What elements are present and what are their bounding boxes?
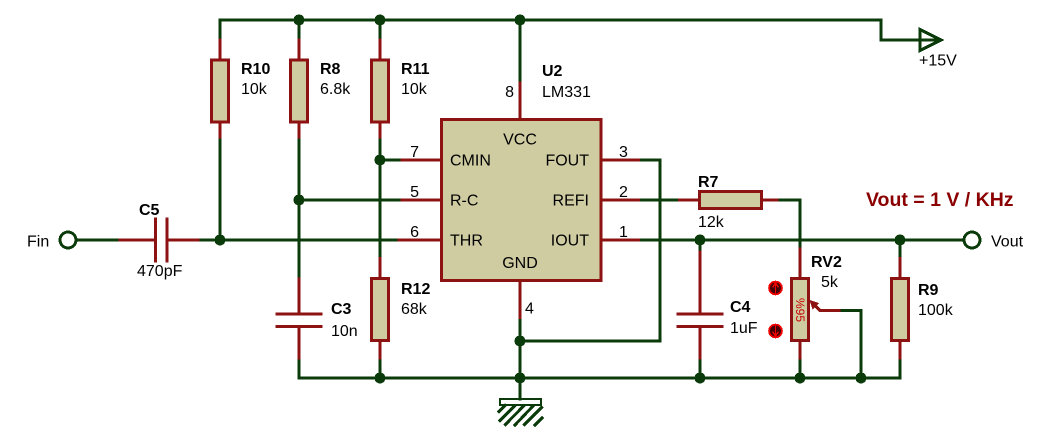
svg-text:6.8k: 6.8k bbox=[320, 81, 351, 98]
node junction dots bbox=[215, 15, 906, 384]
wire pin 8 to top rail bbox=[519, 20, 522, 80]
wire C4 top junction bbox=[699, 240, 702, 249]
power terminal +15V bbox=[920, 30, 941, 51]
svg-text:R10: R10 bbox=[241, 61, 270, 78]
wire R9 top junction bbox=[899, 240, 902, 259]
svg-text:+15V: +15V bbox=[919, 53, 957, 70]
svg-text:R11: R11 bbox=[401, 61, 430, 78]
pin 7 CMIN stub bbox=[399, 159, 442, 162]
pin 6 THR stub bbox=[399, 239, 442, 242]
svg-text:VCC: VCC bbox=[503, 132, 537, 149]
wire RV2 bottom to ground rail bbox=[799, 361, 802, 378]
pin R8 bottom stub bbox=[298, 122, 301, 140]
pin C5 left stub bbox=[120, 239, 154, 242]
svg-text:3: 3 bbox=[619, 144, 628, 161]
pin R10 bottom stub bbox=[219, 122, 222, 140]
svg-text:GND: GND bbox=[502, 255, 538, 272]
wire pin 2 to R7 bbox=[642, 199, 680, 202]
pin 4 GND stub bbox=[519, 282, 522, 321]
svg-text:12k: 12k bbox=[698, 214, 725, 231]
pin R10 top stub bbox=[219, 40, 222, 60]
wire R9 bottom to ground rail bbox=[899, 361, 902, 378]
resistor R7 bbox=[700, 192, 762, 209]
pin C4 bottom stub bbox=[699, 327, 702, 362]
wire pin 4 to ground rail bbox=[519, 321, 522, 379]
svg-text:REFI: REFI bbox=[553, 193, 589, 210]
resistor R12 bbox=[372, 279, 389, 341]
svg-text:CMIN: CMIN bbox=[450, 153, 491, 170]
wire ground rail bbox=[299, 377, 900, 380]
wire C3 bottom corner to ground rail bbox=[299, 361, 300, 378]
pin R12 top stub bbox=[379, 259, 382, 279]
svg-text:5: 5 bbox=[410, 184, 419, 201]
pin 5 R-C stub bbox=[399, 199, 442, 202]
node rail pin4 bbox=[515, 373, 526, 384]
resistor R11 bbox=[372, 60, 389, 122]
svg-text:LM331: LM331 bbox=[542, 84, 591, 101]
wire pin 5 to R8/C3 bbox=[299, 199, 399, 202]
wire pin 7 to R11/R12 bbox=[380, 159, 399, 162]
resistor R10 bbox=[212, 60, 229, 122]
RV2 down button bbox=[769, 325, 782, 338]
wire RV2 wiper to ground rail bbox=[842, 311, 861, 379]
wire R10 bottom to THR net bbox=[219, 140, 222, 240]
pin 1 IOUT stub bbox=[601, 239, 642, 242]
svg-text:8: 8 bbox=[505, 84, 514, 101]
svg-text:%95: %95 bbox=[793, 298, 807, 322]
pin R12 bottom stub bbox=[379, 341, 382, 362]
pin 8 VCC stub bbox=[519, 80, 522, 120]
svg-text:Vout: Vout bbox=[991, 234, 1024, 251]
pin R9 bottom stub bbox=[899, 341, 902, 362]
pin R7 left stub bbox=[680, 199, 701, 202]
node rail R12 bbox=[375, 373, 386, 384]
node R-C/R8/C3 bbox=[294, 195, 305, 206]
node rail RV2 bbox=[795, 373, 806, 384]
RV2 up button bbox=[769, 282, 782, 295]
pin R9 top stub bbox=[899, 259, 902, 279]
terminal Fin bbox=[60, 232, 76, 248]
wire R10 top bbox=[219, 20, 222, 40]
wire R7 right to RV2 top bbox=[780, 200, 800, 249]
svg-text:R-C: R-C bbox=[450, 193, 478, 210]
svg-text:470pF: 470pF bbox=[137, 263, 183, 280]
wire pin 3 down to pin 4 net bbox=[520, 160, 660, 341]
node IOUT/C4 bbox=[695, 235, 706, 246]
wire R8 top bbox=[298, 20, 301, 40]
pin R11 bottom stub bbox=[379, 122, 382, 140]
terminal Vout bbox=[964, 232, 980, 248]
wire R12 bottom to ground rail bbox=[379, 361, 382, 378]
svg-text:10k: 10k bbox=[401, 81, 428, 98]
node top rail R11 bbox=[375, 15, 386, 26]
svg-text:1uF: 1uF bbox=[730, 320, 758, 337]
pin RV2 top stub bbox=[799, 249, 802, 279]
node Fin/R10/THR bbox=[215, 235, 226, 246]
svg-text:2: 2 bbox=[619, 184, 628, 201]
RV2 wiper arrow bbox=[816, 306, 842, 310]
node pin4/FOUT return bbox=[515, 336, 526, 347]
capacitor C4 bbox=[678, 313, 722, 316]
pin 2 REFI stub bbox=[601, 199, 642, 202]
svg-text:R8: R8 bbox=[320, 61, 341, 78]
pin RV2 bottom stub bbox=[799, 341, 802, 362]
svg-text:Fin: Fin bbox=[27, 234, 49, 251]
svg-text:68k: 68k bbox=[401, 301, 428, 318]
op-amp U2 body LM331 bbox=[442, 120, 602, 281]
svg-text:THR: THR bbox=[450, 233, 483, 250]
wire top rail VCC bbox=[220, 20, 938, 40]
capacitor C5 bbox=[154, 219, 157, 261]
wire R8 bottom to R-C net and C3 bbox=[298, 140, 301, 279]
capacitor C3 bbox=[277, 313, 321, 316]
resistor R9 bbox=[892, 279, 909, 341]
svg-text:7: 7 bbox=[410, 144, 419, 161]
pin C3 top stub bbox=[298, 279, 301, 314]
node top rail R8 bbox=[294, 15, 305, 26]
potentiometer RV2 bbox=[792, 279, 809, 341]
wire R11 bottom through CMIN node to R12 bbox=[379, 140, 382, 259]
node top rail pin 8 bbox=[515, 15, 526, 26]
wire IOUT net to Vout terminal bbox=[642, 239, 964, 242]
svg-text:6: 6 bbox=[410, 224, 419, 241]
svg-text:FOUT: FOUT bbox=[545, 153, 589, 170]
ground symbol bbox=[499, 378, 542, 425]
svg-text:R12: R12 bbox=[401, 281, 430, 298]
resistor R8 bbox=[291, 60, 308, 122]
svg-text:1: 1 bbox=[619, 224, 628, 241]
svg-text:R9: R9 bbox=[918, 282, 939, 299]
svg-text:5k: 5k bbox=[821, 274, 839, 291]
wire C4 bottom to ground rail bbox=[699, 361, 702, 378]
svg-text:IOUT: IOUT bbox=[551, 233, 589, 250]
svg-text:C5: C5 bbox=[139, 202, 160, 219]
pin R11 top stub bbox=[379, 40, 382, 60]
node CMIN/R11/R12 bbox=[375, 155, 386, 166]
pin C5 right stub bbox=[169, 239, 202, 242]
svg-text:C4: C4 bbox=[730, 299, 751, 316]
wire R11 top bbox=[379, 20, 382, 40]
node IOUT/R9/Vout bbox=[895, 235, 906, 246]
node rail wiper bbox=[856, 373, 867, 384]
pin 3 FOUT stub bbox=[601, 159, 642, 162]
svg-text:C3: C3 bbox=[331, 301, 352, 318]
svg-text:4: 4 bbox=[525, 301, 534, 318]
svg-text:RV2: RV2 bbox=[811, 254, 842, 271]
wire Fin to C5 bbox=[77, 239, 120, 242]
pin R8 top stub bbox=[298, 40, 301, 60]
svg-text:10k: 10k bbox=[241, 81, 268, 98]
svg-text:10n: 10n bbox=[331, 323, 358, 340]
svg-text:Vout = 1 V / KHz: Vout = 1 V / KHz bbox=[866, 189, 1014, 211]
node rail C4 bbox=[695, 373, 706, 384]
svg-text:R7: R7 bbox=[698, 174, 719, 191]
pin C4 top stub bbox=[699, 249, 702, 314]
pin R7 right stub bbox=[762, 199, 781, 202]
pin C3 bottom stub bbox=[298, 327, 301, 362]
wire THR net C5 to U2 pin 6 bbox=[201, 239, 399, 242]
svg-text:100k: 100k bbox=[918, 302, 954, 319]
svg-text:U2: U2 bbox=[542, 63, 563, 80]
